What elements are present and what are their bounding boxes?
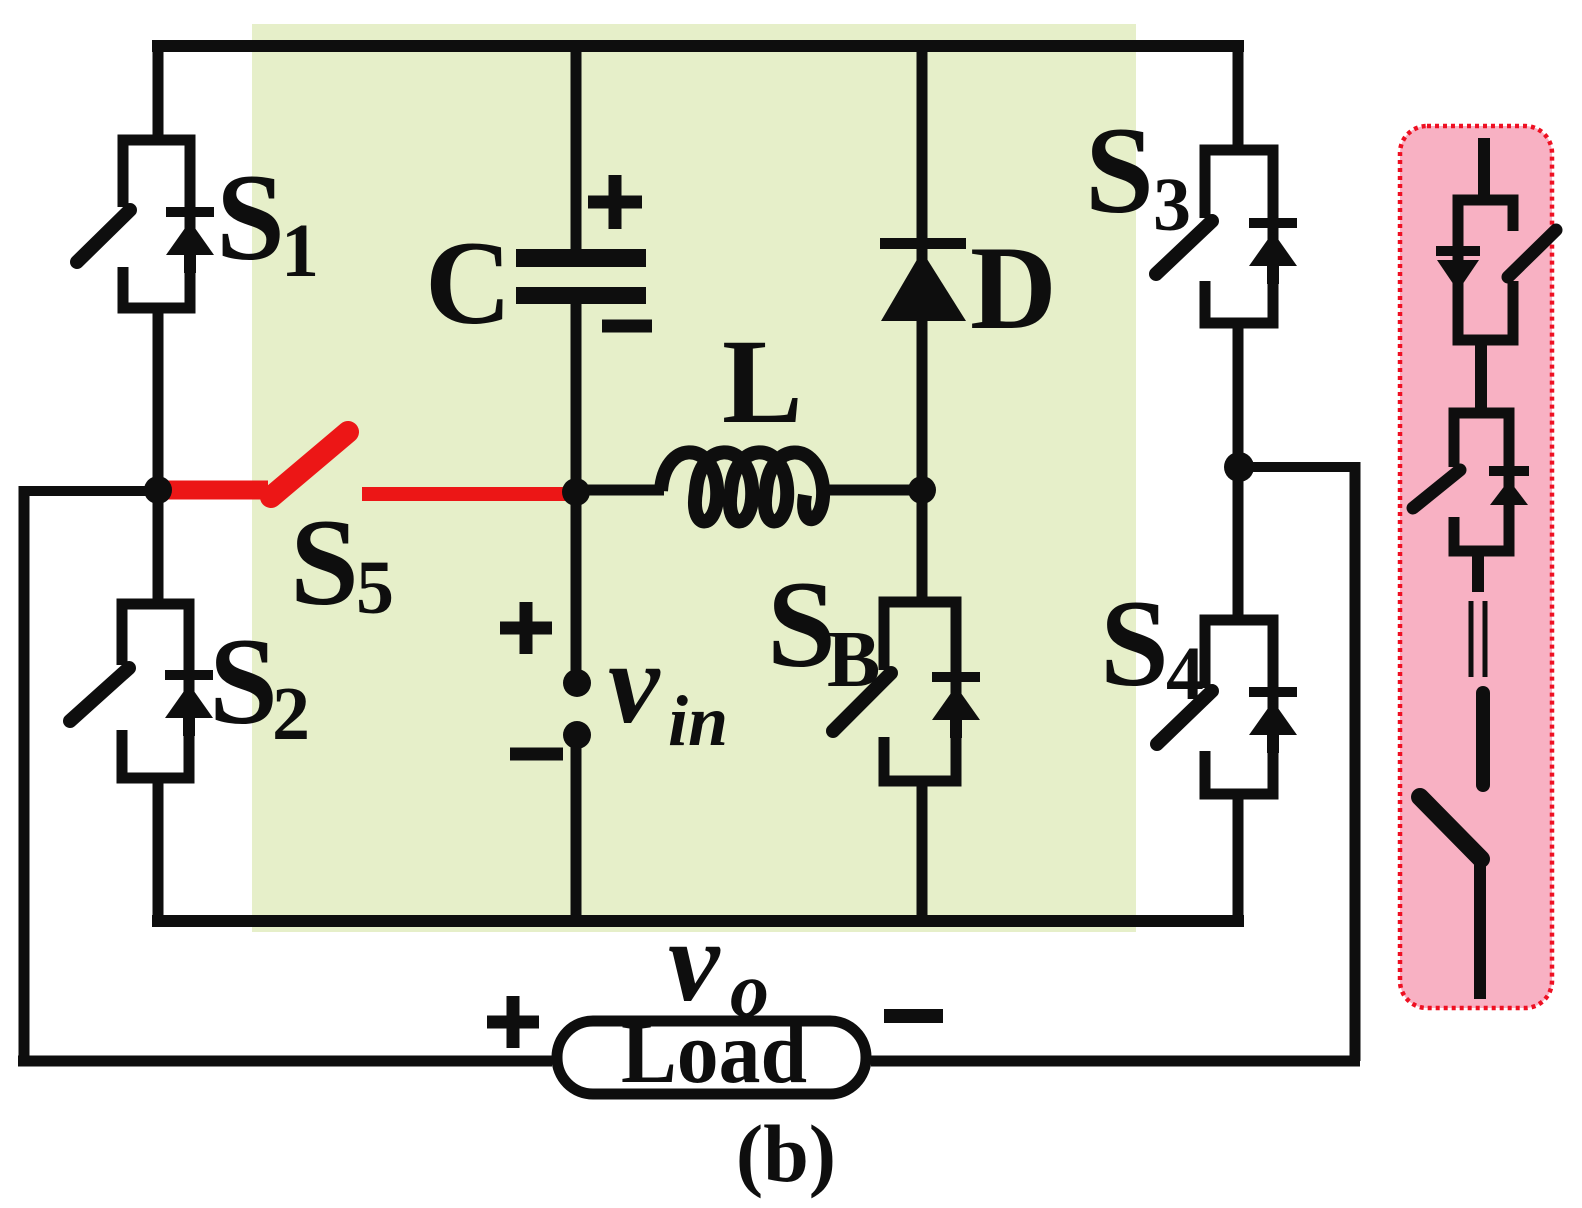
wire left branch lower (S2 to bottom bus) (153, 778, 164, 927)
capacitor C top plate (516, 249, 646, 267)
legend pink box (1400, 126, 1552, 1008)
wire C branch mid (capacitor to vin+) (571, 300, 582, 683)
inductor L coil (661, 452, 823, 521)
legend symbol 1 blade (1508, 230, 1556, 277)
node junction dot at capacitor branch and S5 (562, 478, 590, 506)
load plus sign (487, 996, 539, 1048)
legend symbol 2 box (switch left, diode right pointing up) (1454, 413, 1509, 551)
legend symbol 1 diode bar (1436, 246, 1480, 256)
legend equivalence sign (1469, 601, 1474, 677)
node vin- terminal dot (563, 721, 591, 749)
vin plus sign (500, 602, 552, 654)
wire right branch lower (S4 to bottom bus) (1233, 794, 1244, 927)
switch S5 red wire left segment (160, 481, 268, 500)
svg-text:4: 4 (1166, 632, 1204, 716)
capacitor minus sign (602, 320, 652, 333)
svg-text:(b): (b) (736, 1108, 836, 1199)
switch SB (box with blade and antiparallel diode) (833, 602, 980, 781)
wire right branch mid (S3 to node B) (1233, 323, 1244, 467)
wire left branch upper (top bus to S1) (153, 40, 164, 140)
legend symbol 1 box (rotated switch, diode on left pointing down, blade upper right) (1458, 200, 1513, 340)
wire output left vertical (19, 486, 30, 1061)
svg-text:B: B (827, 616, 880, 704)
node vin+ terminal dot (563, 669, 591, 697)
legend symbol 2 diode bar (1489, 466, 1529, 476)
capacitor C bottom plate (516, 287, 646, 304)
wire bottom bus (152, 915, 1244, 927)
legend symbol 2 diode triangle (pointing up) (1490, 480, 1528, 505)
green shaded region (252, 24, 1136, 932)
vin minus sign (510, 748, 563, 761)
switch S4 (box with blade and antiparallel diode) (1157, 620, 1297, 794)
svg-text:v: v (608, 620, 661, 748)
svg-text:L: L (722, 315, 803, 449)
legend symbol 2 blade (1413, 470, 1460, 508)
diode D triangle (881, 251, 966, 321)
wire right branch (node B to S4) (1233, 467, 1244, 620)
node junction dot at inductor right / diode branch (908, 476, 936, 504)
legend symbol 1 top lead (1478, 138, 1490, 205)
svg-text:5: 5 (356, 546, 394, 630)
wire inductor left lead (576, 485, 664, 496)
svg-text:C: C (425, 216, 512, 349)
wire C branch upper (top bus to capacitor) (571, 46, 582, 253)
switch S5 red wire right segment (362, 487, 572, 501)
svg-text:S: S (1085, 102, 1154, 239)
node B junction dot (S3/S4 output) (1224, 452, 1254, 482)
svg-text:in: in (668, 681, 728, 761)
wire load right horizontal (871, 1056, 1360, 1067)
wire output right vertical (1350, 462, 1361, 1061)
legend symbol 2 bottom lead (1472, 551, 1484, 592)
wire inductor right lead (820, 485, 922, 496)
wire left branch mid (S1 to node A) (153, 308, 164, 490)
legend ideal switch top terminal (1476, 693, 1490, 785)
wire output tap right horizontal (1238, 462, 1355, 472)
wire right branch upper (top bus to S3) (1233, 40, 1244, 150)
svg-text:S: S (209, 613, 278, 750)
wire load left horizontal (18, 1056, 552, 1067)
svg-text:1: 1 (281, 209, 319, 293)
svg-text:o: o (730, 946, 769, 1033)
svg-text:S: S (290, 494, 359, 631)
load minus sign (884, 1009, 943, 1023)
switch S3 (box with blade and antiparallel diode) (1156, 150, 1297, 323)
svg-text:S: S (1100, 575, 1169, 712)
wire C branch lower (vin- to bottom bus) (571, 735, 582, 921)
switch S1 (box with blade and antiparallel diode) (77, 140, 214, 308)
wire left branch (node A to S2) (153, 490, 164, 604)
legend ideal switch bottom lead (1474, 858, 1486, 999)
svg-text:v: v (668, 898, 721, 1026)
svg-text:S: S (767, 556, 836, 693)
switch S5 red blade (271, 432, 348, 497)
legend wire between symbol 1 and symbol 2 (1475, 340, 1487, 413)
wire top bus (152, 40, 1244, 52)
wire D branch lower (SB to bottom bus) (917, 781, 928, 921)
diode D cathode bar (880, 238, 966, 249)
svg-text:3: 3 (1153, 163, 1191, 247)
svg-text:S: S (216, 149, 285, 286)
legend symbol 1 diode triangle (pointing down) (1437, 260, 1479, 291)
legend ideal switch blade (1420, 797, 1481, 859)
wire output tap left horizontal (19, 486, 158, 496)
load pill outline (557, 1021, 866, 1094)
node A junction dot (S1/S2/S5 left) (144, 476, 172, 504)
svg-text:D: D (970, 221, 1057, 354)
svg-text:2: 2 (272, 672, 310, 756)
capacitor plus sign (588, 175, 642, 229)
switch S2 (box with blade and antiparallel diode) (70, 604, 213, 778)
wire D branch upper (top bus through diode D to SB) (917, 46, 928, 602)
